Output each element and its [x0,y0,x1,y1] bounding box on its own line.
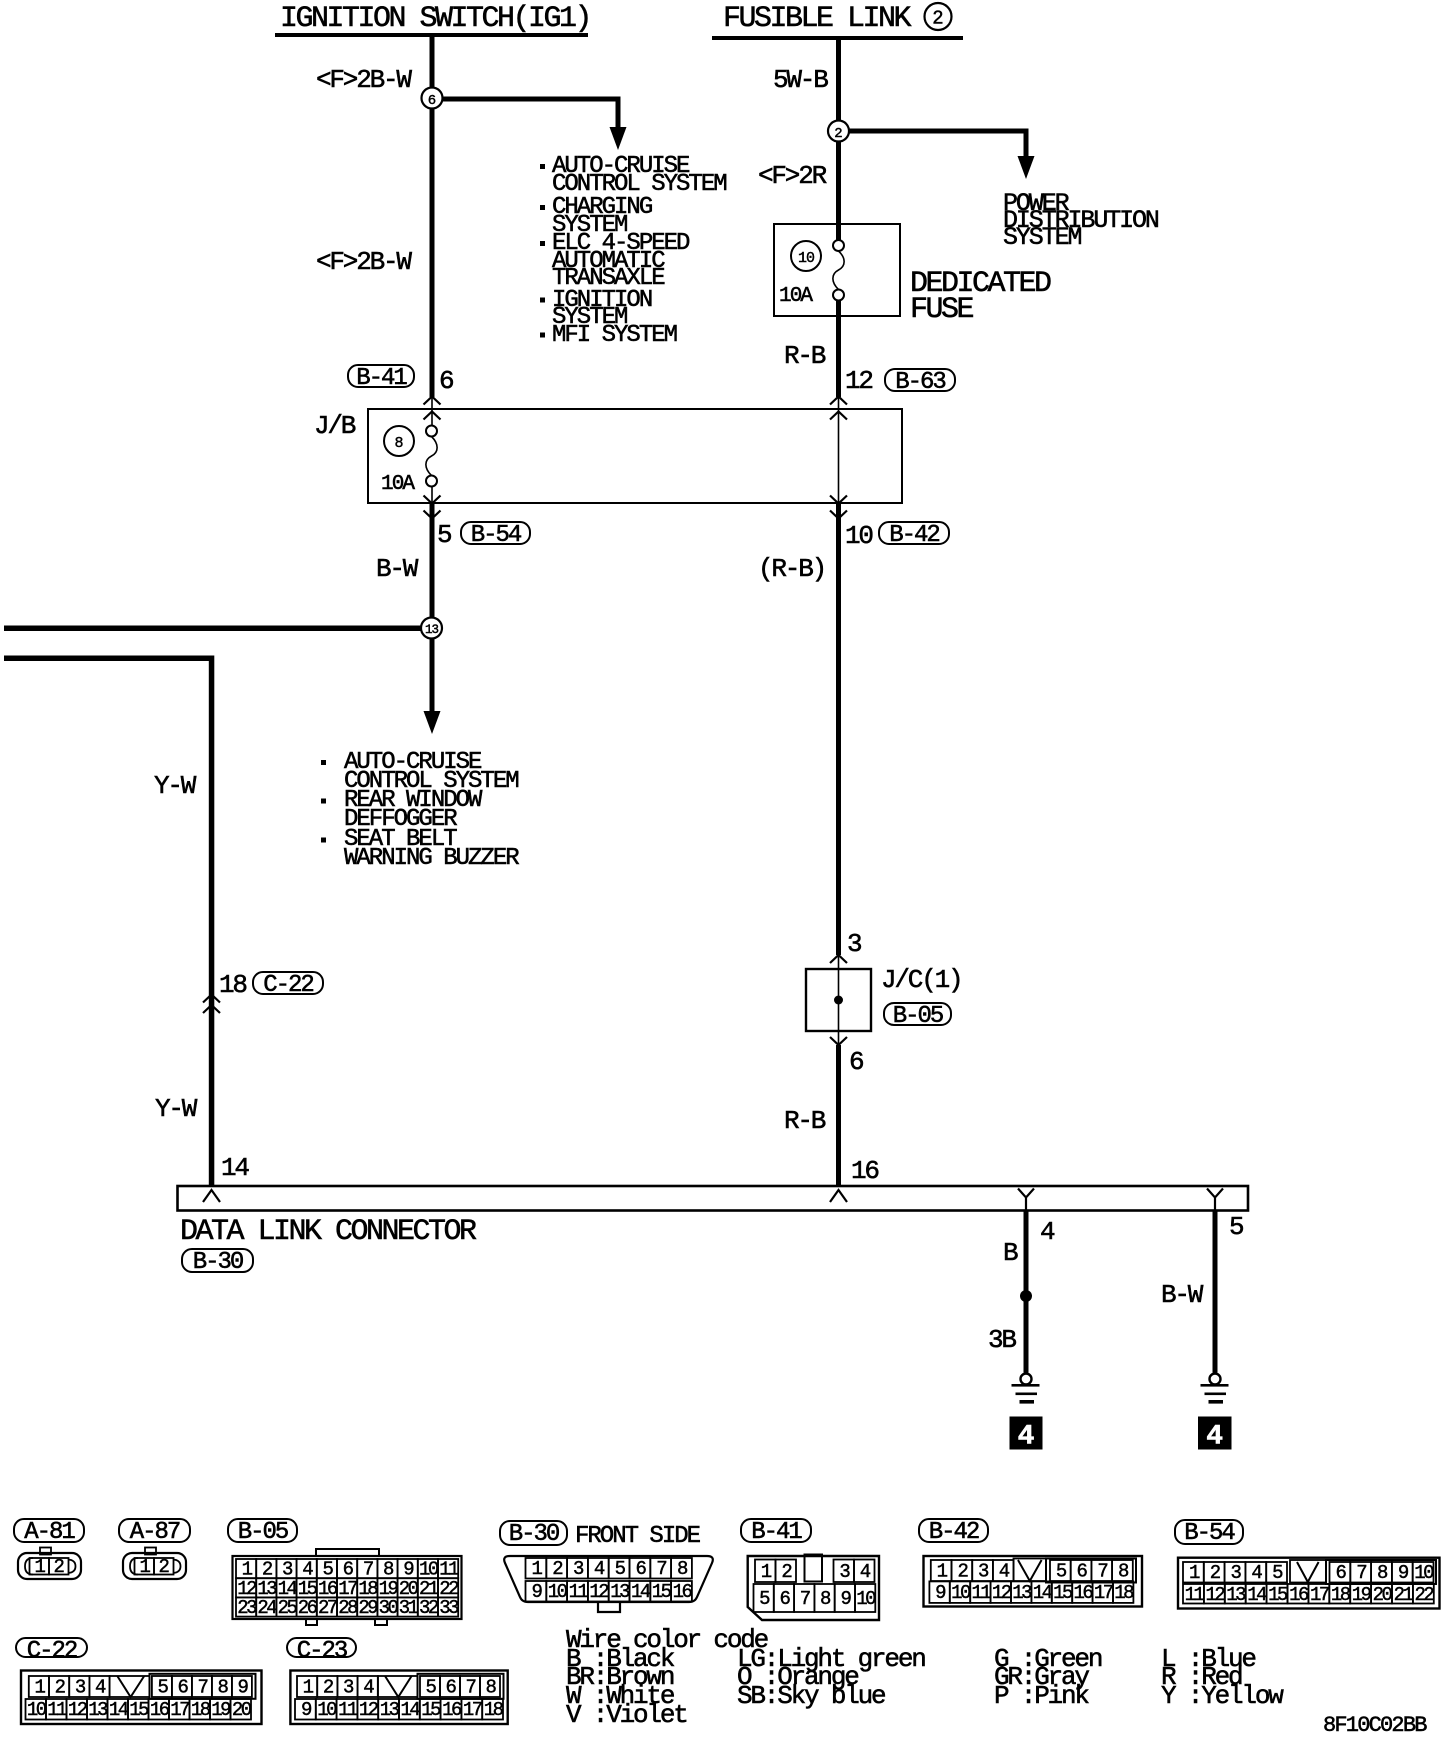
svg-text:2: 2 [55,1677,66,1699]
svg-text:11: 11 [1185,1584,1205,1606]
connector label B-54 bottom [1174,1519,1244,1545]
connector B-30 pin view front side [504,1556,713,1612]
svg-text:19: 19 [211,1699,231,1721]
svg-text:14: 14 [1033,1582,1053,1604]
fuse rating 10A in J/B [381,474,413,495]
svg-text:28: 28 [338,1597,358,1619]
arrowhead to auto-cruise system list [610,127,627,150]
svg-text:15: 15 [652,1581,672,1603]
legend header [566,1631,767,1650]
svg-text:4: 4 [860,1561,871,1583]
connector C-22 pass-through chevrons on Y-W wire [203,995,220,1014]
svg-text:19: 19 [1352,1584,1372,1606]
svg-text:7: 7 [466,1677,476,1699]
wire label (F)2B-W lower [316,249,410,275]
svg-text:3: 3 [839,1561,850,1583]
svg-text:8: 8 [486,1677,497,1699]
pin number 6 at J/C [849,1049,862,1075]
J/B junction block box [368,409,902,503]
wire: J/C(1) pin 6 down R-B to data link connector pin 16 [836,1045,841,1186]
thin wire inside J/B right side [838,397,840,504]
pin number 3 [847,931,860,957]
connector label B-05 [227,1518,298,1543]
svg-text:16: 16 [673,1581,693,1603]
svg-text:13: 13 [380,1699,400,1721]
svg-text:4: 4 [1018,1422,1035,1453]
connector label B-42 [878,521,950,545]
fusible link header underline [712,36,963,40]
wire: branch vertical down to arrow [1024,129,1029,159]
header: fusible link 2 [723,4,909,34]
svg-text:5: 5 [426,1677,437,1699]
wire: branch vertical down to arrow [616,97,621,130]
arrowhead to auto-cruise/defogger list [424,711,441,734]
wire label B-W right [1161,1282,1201,1308]
svg-text:12: 12 [359,1699,379,1721]
terminal chevron at data link connector pin 14 [203,1190,220,1202]
svg-text:13: 13 [1226,1584,1246,1606]
pin number 6 at J/B [439,368,452,394]
circled 2 in fusible link header [925,3,952,30]
wire: Y-W vertical down to data link connector pin 14 [209,656,215,1187]
svg-text:8: 8 [820,1588,831,1610]
svg-text:14: 14 [1247,1584,1267,1606]
svg-text:23: 23 [237,1597,257,1619]
J/C(1) joint connector box [806,969,871,1031]
svg-text:9: 9 [840,1588,851,1610]
svg-text:18: 18 [191,1699,211,1721]
svg-text:4: 4 [363,1677,374,1699]
svg-text:10: 10 [856,1588,876,1610]
connector terminal chevron at J/C(1) pin 6 [830,1037,847,1045]
svg-text:27: 27 [318,1597,337,1619]
svg-text:2: 2 [932,8,943,30]
svg-text:17: 17 [463,1699,482,1721]
bullet dots for list 1 [540,164,545,169]
svg-text:21: 21 [1394,1584,1414,1606]
svg-text:15: 15 [421,1699,441,1721]
wire label (R-B) [758,556,825,582]
connector B-54 pin view [1178,1558,1440,1609]
svg-text:22: 22 [1414,1584,1434,1606]
connector B-41 terminal chevrons at J/B pin 6 [424,397,441,420]
svg-text:6: 6 [1335,1562,1346,1584]
wire: branch from node 6 to auto-cruise arrow, horizontal [434,97,620,102]
connector label B-41 bottom [740,1518,812,1543]
svg-text:18: 18 [484,1699,504,1721]
svg-text:26: 26 [298,1597,318,1619]
svg-text:9: 9 [935,1582,946,1604]
wire label (F)2R [758,163,825,189]
svg-text:14: 14 [400,1699,420,1721]
wire: fusible link 2 down 5W-B [836,40,841,241]
pin number 18 [219,972,246,998]
svg-text:14: 14 [631,1581,651,1603]
svg-text:25: 25 [278,1597,298,1619]
pin number 10 [845,523,872,549]
connector label B-63 [884,368,956,392]
svg-text:20: 20 [232,1699,252,1721]
svg-text:10: 10 [951,1582,971,1604]
svg-text:1: 1 [34,1677,45,1699]
destination list: auto-cruise, rear window deffogger, seat belt [344,753,518,792]
thin wire J/B fuse to pin 5 [431,487,433,504]
svg-text:8: 8 [1118,1561,1129,1583]
wire: horizontal feed from left, Y-W branch [4,656,214,662]
svg-text:18: 18 [1114,1582,1134,1604]
pin number 4 [1040,1219,1053,1245]
svg-text:6: 6 [177,1677,188,1699]
wire label Y-W upper [154,773,194,799]
connector A-87 pin view [123,1548,186,1580]
svg-text:8: 8 [1377,1562,1388,1584]
svg-text:5: 5 [615,1558,626,1580]
svg-text:17: 17 [1310,1584,1329,1606]
svg-text:31: 31 [399,1597,419,1619]
svg-text:4: 4 [999,1561,1010,1583]
connector terminal chevron at J/C(1) pin 3 [830,955,847,963]
fuse rating 10A dedicated [779,286,811,307]
svg-text:9: 9 [1398,1562,1409,1584]
svg-text:20: 20 [1373,1584,1393,1606]
svg-text:15: 15 [1268,1584,1288,1606]
connector label C-22 bottom [15,1637,88,1658]
svg-text:15: 15 [129,1699,149,1721]
svg-text:17: 17 [170,1699,189,1721]
ground symbol left [1021,1374,1032,1385]
svg-text:17: 17 [1094,1582,1113,1604]
wire label R-B lower [784,1108,824,1134]
node 6 junction circle [422,88,443,109]
svg-text:10: 10 [548,1581,568,1603]
pin number 16 [851,1158,878,1184]
label: dedicated fuse [910,271,1050,323]
label J/C(1) [881,967,961,993]
wire: J/B pin 10 down (R-B) to J/C(1) pin 3 [836,504,841,956]
connector label C-22 on wire [252,971,324,995]
svg-text:7: 7 [656,1558,666,1580]
svg-text:5: 5 [1056,1561,1067,1583]
connector label A-87 [118,1518,191,1543]
fuse element in J/B [426,426,437,437]
wire: pin 4 down, B wire to ground [1024,1211,1029,1373]
svg-text:13: 13 [1012,1582,1032,1604]
connector label A-81 [13,1518,85,1543]
svg-text:2: 2 [781,1561,792,1583]
svg-text:7: 7 [1356,1562,1366,1584]
thin wire through J/C(1) [838,955,840,1045]
svg-text:1: 1 [531,1558,542,1580]
svg-text:1: 1 [303,1677,314,1699]
connector label C-23 bottom [286,1637,357,1658]
svg-text:1: 1 [761,1561,772,1583]
svg-text:5: 5 [759,1588,770,1610]
J/B fuse number circle 8 [384,426,414,456]
connector B-42 pin view [924,1556,1143,1607]
svg-text:2: 2 [957,1561,968,1583]
wire label B-W [376,556,416,582]
svg-text:13: 13 [610,1581,630,1603]
svg-text:11: 11 [569,1581,589,1603]
pin number 5 at DLC [1229,1214,1242,1240]
svg-text:6: 6 [428,93,436,109]
svg-text:5: 5 [157,1677,168,1699]
connector B-41 pin view [748,1555,879,1621]
svg-text:8: 8 [217,1677,228,1699]
fuse element in dedicated fuse box [833,240,844,251]
wire label R-B upper [784,343,824,369]
connector label B-05 on J/C [883,1002,952,1026]
label J/B [314,413,354,439]
pin number 5 [437,522,450,548]
connector label B-30 main [181,1248,254,1273]
connector B-63 terminal chevrons at J/B pin 12 [830,397,847,420]
terminal chevron at data link connector pin 4 [1018,1189,1034,1211]
svg-text:3: 3 [343,1677,354,1699]
node 13 junction circle [421,618,442,639]
svg-text:5: 5 [1272,1562,1283,1584]
connector label B-42 bottom [918,1518,989,1543]
svg-text:14: 14 [109,1699,129,1721]
connector B-54 terminal chevrons at J/B pin 5 [424,496,441,519]
connector A-81 pin view [18,1548,81,1580]
connector B-42 terminal chevrons at J/B pin 10 [830,496,847,519]
svg-text:3: 3 [1231,1562,1242,1584]
wire: pin 5 down, B-W wire to ground [1213,1211,1218,1373]
svg-text:4: 4 [95,1677,106,1699]
svg-text:3: 3 [978,1561,989,1583]
wire label (F)2B-W upper [316,67,410,93]
svg-text:12: 12 [589,1581,609,1603]
legend column 3 [994,1650,1101,1706]
pin number 12 [845,368,872,394]
svg-text:6: 6 [779,1588,790,1610]
svg-text:16: 16 [442,1699,462,1721]
svg-text:32: 32 [419,1597,439,1619]
svg-text:11: 11 [338,1699,358,1721]
data link connector box B-30 [178,1186,1249,1211]
label front side [575,1528,699,1546]
svg-text:10: 10 [1414,1562,1434,1584]
svg-text:1: 1 [1189,1562,1200,1584]
svg-text:7: 7 [800,1588,810,1610]
wire label 5W-B [773,67,827,93]
junction dot inside J/C(1) [834,996,843,1005]
svg-text:2: 2 [834,126,842,142]
connector label B-30 [499,1520,568,1546]
terminal chevron at data link connector pin 5 [1207,1189,1223,1211]
svg-text:13: 13 [425,623,439,637]
destination list: auto-cruise etc [552,158,726,193]
legend column 2 [737,1650,925,1706]
svg-text:3: 3 [573,1558,584,1580]
svg-text:24: 24 [257,1597,277,1619]
svg-text:8: 8 [677,1558,688,1580]
svg-text:2: 2 [552,1558,563,1580]
svg-text:6: 6 [635,1558,646,1580]
svg-text:8: 8 [394,435,403,452]
terminal chevron at data link connector pin 16 [830,1190,847,1202]
thin wire into J/B fuse [431,397,433,426]
svg-text:16: 16 [150,1699,170,1721]
arrowhead to power distribution system [1018,156,1035,179]
svg-text:30: 30 [379,1597,399,1619]
wire: branch from node 2 to power distribution, horizontal [841,129,1029,134]
bullet dots for list 2 [321,760,326,765]
svg-text:4: 4 [1206,1422,1223,1453]
ignition switch header underline [275,33,588,37]
svg-text:11: 11 [47,1699,67,1721]
svg-text:33: 33 [439,1597,459,1619]
svg-text:10: 10 [798,250,815,267]
svg-text:9: 9 [301,1699,312,1721]
svg-text:10: 10 [27,1699,47,1721]
svg-text:15: 15 [1053,1582,1073,1604]
svg-text:11: 11 [971,1582,991,1604]
svg-text:4: 4 [1251,1562,1262,1584]
wire: ignition switch IG1 down to J/B pin 6 (F)2B-W [430,36,435,397]
connector label B-54 [460,521,531,545]
svg-text:18: 18 [1331,1584,1351,1606]
label: data link connector [180,1217,475,1247]
connector label B-41 [347,364,415,388]
svg-text:12: 12 [68,1699,88,1721]
svg-text:13: 13 [88,1699,108,1721]
legend column 4 [1161,1650,1282,1706]
svg-text:4: 4 [594,1558,605,1580]
dedicated fuse number circle 10 [791,241,821,271]
ground symbol right [1210,1374,1221,1385]
destination label: power distribution system [1003,196,1158,246]
header: ignition switch (IG1) [280,4,590,34]
svg-text:16: 16 [1073,1582,1093,1604]
svg-text:3: 3 [75,1677,86,1699]
connector C-23 pin view [290,1671,507,1725]
svg-text:12: 12 [992,1582,1012,1604]
ground reference black box 4 (right) [1198,1417,1232,1450]
svg-text:6: 6 [1077,1561,1088,1583]
wire: dedicated fuse to J/B pin 12, R-B [836,300,841,397]
wire label 3B [988,1327,1015,1353]
svg-text:9: 9 [531,1581,542,1603]
junction dot on B wire [1020,1290,1032,1302]
svg-text:2: 2 [1210,1562,1221,1584]
svg-text:9: 9 [237,1677,248,1699]
svg-text:16: 16 [1289,1584,1309,1606]
dedicated fuse box [774,224,900,316]
svg-text:7: 7 [197,1677,207,1699]
ground reference black box 4 (left) [1010,1417,1043,1450]
wire label B [1003,1240,1016,1266]
wire label Y-W lower [155,1096,195,1122]
wire: J/B pin 5 down B-W [430,504,435,713]
pin number 14 [221,1155,248,1181]
legend column 1 [566,1650,687,1724]
svg-text:1: 1 [937,1561,948,1583]
svg-text:6: 6 [446,1677,457,1699]
drawing number [1323,1715,1426,1737]
wire: horizontal feed from left to node 13 [4,626,435,632]
svg-text:2: 2 [323,1677,334,1699]
node 2 junction circle [828,121,849,142]
connector B-05 pin view [233,1549,462,1625]
svg-text:29: 29 [358,1597,378,1619]
connector C-22 pin view [21,1671,262,1725]
svg-text:7: 7 [1097,1561,1107,1583]
svg-text:10: 10 [317,1699,337,1721]
svg-text:12: 12 [1205,1584,1225,1606]
